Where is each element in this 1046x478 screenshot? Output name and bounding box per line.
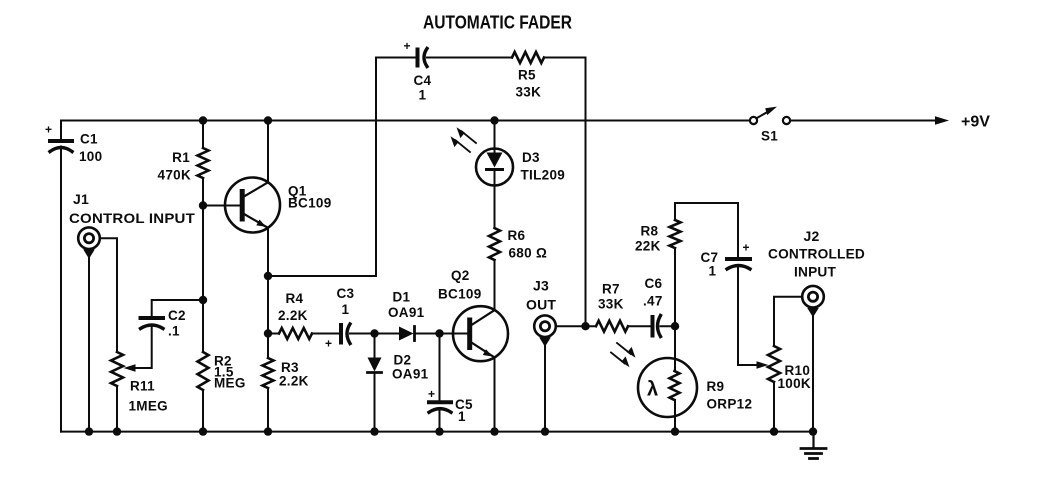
wire J2 sleeve down	[812, 312, 814, 432]
svg-text:+: +	[428, 387, 435, 401]
svg-text:D3: D3	[522, 150, 540, 165]
svg-text:MEG: MEG	[214, 376, 246, 391]
junction ground-C5	[435, 427, 443, 435]
resistor R8	[674, 203, 676, 220]
capacitor C1	[50, 139, 72, 143]
wire top +9V rail	[61, 120, 750, 122]
junction Q1 emitter-loop	[264, 272, 272, 280]
junction rail-R1	[199, 116, 207, 124]
svg-text:2.2K: 2.2K	[278, 308, 308, 323]
svg-text:100: 100	[79, 149, 102, 164]
svg-text:BC109: BC109	[438, 287, 482, 302]
svg-text:J3: J3	[533, 278, 549, 294]
svg-text:D2: D2	[394, 353, 412, 368]
resistor R3	[263, 358, 274, 388]
svg-text:1: 1	[419, 88, 427, 103]
svg-text:R6: R6	[508, 228, 526, 243]
svg-text:C3: C3	[337, 286, 355, 301]
svg-text:λ: λ	[647, 379, 658, 401]
wire R7 to C6	[628, 325, 651, 327]
wire Q2 collector to R6	[494, 260, 496, 310]
switch S1	[750, 117, 757, 124]
junction ground-D2	[370, 427, 378, 435]
wire R4 to C3	[312, 333, 339, 335]
svg-text:BC109: BC109	[288, 196, 332, 211]
svg-text:33K: 33K	[516, 85, 542, 100]
junction ground-R11	[113, 427, 121, 435]
wire C3 to D1	[350, 333, 399, 335]
wire J3 sleeve down	[544, 342, 546, 432]
svg-text:C6: C6	[645, 276, 663, 291]
svg-text:+9V: +9V	[961, 114, 990, 131]
svg-text:100K: 100K	[778, 376, 811, 391]
svg-text:C4: C4	[414, 73, 432, 88]
svg-text:1MEG: 1MEG	[129, 399, 168, 414]
wire R1 to R2	[202, 178, 204, 352]
jack J1	[78, 227, 100, 249]
svg-text:.47: .47	[643, 294, 663, 309]
wire Q1 collector	[267, 121, 269, 183]
resistor R6	[489, 228, 500, 260]
svg-text:S1: S1	[761, 129, 778, 144]
wire loop middle	[427, 57, 512, 59]
photoresistor R9 ORP12	[638, 358, 697, 417]
svg-text:+: +	[325, 337, 332, 351]
LED D3	[476, 149, 513, 186]
diode D2	[374, 334, 376, 358]
svg-text:AUTOMATIC FADER: AUTOMATIC FADER	[423, 13, 572, 33]
svg-text:R9: R9	[707, 379, 725, 394]
ground	[812, 432, 814, 448]
svg-text:2.2K: 2.2K	[279, 374, 309, 389]
svg-text:D1: D1	[393, 290, 411, 305]
svg-text:OA91: OA91	[388, 305, 425, 320]
diode D1	[399, 327, 414, 341]
junction ground-R2	[199, 427, 207, 435]
transistor Q1	[225, 178, 280, 233]
transistor Q2	[453, 306, 508, 361]
jack J2	[802, 286, 824, 308]
wire J1 sleeve down	[88, 254, 90, 432]
svg-text:R8: R8	[641, 224, 659, 239]
svg-text:1: 1	[458, 409, 466, 424]
R9 light arrows	[617, 343, 631, 354]
svg-text:C1: C1	[80, 132, 98, 147]
wire J3 tip right	[556, 325, 596, 327]
svg-text:J2: J2	[804, 228, 820, 244]
wire Q1 base	[203, 205, 240, 207]
junction rail-D3	[490, 116, 498, 124]
wire feedback loop left	[268, 58, 416, 277]
svg-text:680 Ω: 680 Ω	[509, 246, 548, 261]
junction ground-R10	[770, 427, 778, 435]
svg-text:+: +	[404, 39, 411, 53]
capacitor C7	[737, 203, 739, 257]
svg-text:CONTROLLED: CONTROLLED	[768, 246, 865, 262]
svg-text:22K: 22K	[635, 239, 661, 254]
junction C6-R8-R9	[671, 322, 679, 330]
wire left bus top	[60, 121, 62, 140]
svg-text:1: 1	[342, 302, 350, 317]
resistor R5	[512, 52, 544, 63]
junction R1-Q1 base	[199, 201, 207, 209]
junction ground-J3 sleeve	[541, 427, 549, 435]
resistor R7	[596, 321, 628, 332]
resistor R1	[202, 121, 204, 149]
wire left bus bottom	[60, 147, 62, 432]
svg-text:INPUT: INPUT	[794, 264, 836, 280]
svg-text:ORP12: ORP12	[707, 397, 753, 412]
svg-text:470K: 470K	[158, 168, 191, 183]
junction ground-J2 sleeve	[809, 427, 817, 435]
svg-text:OA91: OA91	[392, 367, 429, 382]
capacitor C2	[152, 300, 203, 316]
wire J1 tip to R11	[100, 238, 117, 352]
svg-text:Q2: Q2	[451, 268, 470, 283]
wire rail after switch to +9V arrow	[790, 120, 938, 122]
capacitor C4	[416, 50, 420, 66]
svg-text:.1: .1	[168, 324, 180, 339]
D3 light arrows	[462, 131, 477, 143]
wire C6 to node	[661, 325, 676, 327]
junction ground-Q2 emitter	[490, 427, 498, 435]
svg-text:R7: R7	[602, 282, 620, 297]
junction D1-D2	[370, 329, 378, 337]
junction R1-C2	[199, 296, 207, 304]
svg-text:+: +	[743, 241, 750, 255]
wire Q2 emitter down	[494, 357, 496, 431]
svg-text:J1: J1	[73, 191, 89, 207]
junction ground-J1 sleeve	[85, 427, 93, 435]
wire J2 tip to R10	[774, 297, 802, 346]
svg-text:1: 1	[709, 264, 717, 279]
resistor R2	[198, 352, 209, 390]
junction J3-loop	[581, 322, 589, 330]
junction ground-R9	[671, 427, 679, 435]
junction R4-R3	[264, 329, 272, 337]
svg-text:OUT: OUT	[526, 297, 556, 313]
svg-text:R1: R1	[172, 150, 190, 165]
svg-text:R5: R5	[518, 68, 536, 83]
wire Q1 emitter down	[267, 228, 269, 358]
svg-text:TIL209: TIL209	[521, 168, 566, 183]
resistor R4	[268, 333, 279, 335]
junction Q2 base-C5	[435, 329, 443, 337]
junction ground-R3	[264, 427, 272, 435]
svg-text:R4: R4	[286, 291, 304, 306]
wire R6 to D3	[494, 170, 496, 229]
capacitor C5	[439, 334, 441, 401]
junction rail-Q1 collector	[264, 116, 272, 124]
svg-text:C2: C2	[168, 308, 186, 323]
wire D1 to Q2 base	[415, 333, 468, 335]
svg-text:R11: R11	[130, 379, 155, 394]
svg-text:33K: 33K	[598, 297, 624, 312]
svg-text:CONTROL INPUT: CONTROL INPUT	[69, 210, 195, 226]
wire loop right down	[544, 58, 586, 327]
capacitor C6	[651, 317, 655, 336]
capacitor C3	[339, 325, 343, 343]
jack J3	[534, 315, 556, 337]
potentiometer R10	[768, 346, 780, 382]
wire bottom ground rail	[61, 431, 814, 433]
potentiometer R11	[111, 352, 123, 386]
svg-text:+: +	[45, 123, 52, 137]
wire R8 top to C7	[675, 202, 738, 204]
